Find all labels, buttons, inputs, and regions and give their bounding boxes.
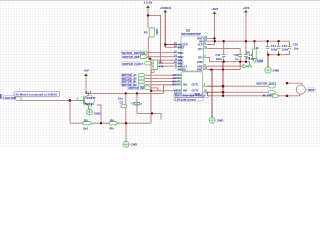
wire IC pin jog to rail C xyxy=(208,58,210,62)
junction IC in xyxy=(164,43,167,46)
svg-text:47k: 47k xyxy=(159,65,164,69)
wire junction to IC pin y45.3 xyxy=(165,44,177,46)
svg-text:R2: R2 xyxy=(144,30,148,34)
wire mid rail y113.6 xyxy=(137,113,161,119)
svg-text:C5: C5 xyxy=(120,101,124,105)
ground GND bracket below R9 xyxy=(252,59,263,63)
wire IC pin y47.9 xyxy=(165,46,177,48)
wire L1 to IC xyxy=(148,52,178,54)
svg-text:Motor drive dual H-bridge: Motor drive dual H-bridge xyxy=(175,95,206,98)
wire resistor R2 bottom down xyxy=(147,37,149,59)
svg-text:10u: 10u xyxy=(294,47,299,51)
op-amp U2 sub body labels xyxy=(172,74,181,96)
svg-text:GND: GND xyxy=(131,143,139,147)
wire R3 bottom row xyxy=(152,65,177,67)
global label MOTOR_A2 xyxy=(121,76,145,80)
wire subbox out2 xyxy=(223,91,269,93)
svg-text:AIN1: AIN1 xyxy=(178,52,184,55)
U2 left pin stubs xyxy=(177,45,181,70)
svg-text:1.5A peak current: 1.5A peak current xyxy=(175,98,196,101)
svg-text:R9: R9 xyxy=(246,51,250,55)
capacitor C12 xyxy=(233,53,242,62)
wire R3 top row xyxy=(152,59,177,61)
junction c13 rail xyxy=(253,40,255,42)
capacitor C11 xyxy=(215,53,225,61)
wire flag3 stem xyxy=(214,14,216,38)
svg-text:IN2: IN2 xyxy=(183,89,188,93)
U2 pin names right xyxy=(197,37,203,71)
junction rail93 c6 xyxy=(136,92,138,94)
svg-text:R5: R5 xyxy=(84,118,88,122)
svg-text:+5V: +5V xyxy=(83,68,88,72)
svg-text:VINT: VINT xyxy=(197,69,203,72)
op-amp U2 DRV8833 main body xyxy=(181,29,204,71)
note box N2 xyxy=(174,94,209,101)
junction x224 y69 xyxy=(222,68,224,70)
svg-text:100n: 100n xyxy=(271,48,278,52)
power flag +3V3 F3 xyxy=(211,7,218,14)
svg-text:1u: 1u xyxy=(235,57,239,61)
wire gnd drop x126 xyxy=(125,123,127,141)
svg-text:5V Motor connected to 5VBUS: 5V Motor connected to 5VBUS xyxy=(16,93,58,97)
junction bottom r5 xyxy=(100,122,102,124)
power flag +3V3 F4 xyxy=(242,6,249,13)
svg-text:100n: 100n xyxy=(216,57,223,61)
resistor R5 xyxy=(81,118,95,130)
svg-text:+3V3: +3V3 xyxy=(211,7,218,11)
junction c11 railC xyxy=(223,61,225,63)
svg-text:SOT23: SOT23 xyxy=(85,102,95,106)
svg-text:OUT2: OUT2 xyxy=(192,89,199,93)
svg-text:R6: R6 xyxy=(110,118,114,122)
label MOTOR_OUT1 pill xyxy=(256,81,276,88)
wire rail C y61.7 xyxy=(210,62,250,65)
junction c15 rail xyxy=(277,40,279,42)
label MOTOR_OUT2 pill xyxy=(268,90,275,94)
wire cap C11 column top xyxy=(223,41,225,54)
wire row 81.6 xyxy=(145,81,176,83)
svg-text:CP1: CP1 xyxy=(198,48,203,51)
svg-text:1k: 1k xyxy=(256,46,260,50)
wire gnd drop x268 xyxy=(267,55,269,67)
svg-text:4.5-5V: 4.5-5V xyxy=(144,1,153,5)
wire IC pin y44.5 xyxy=(208,44,215,46)
wire subbox out1 xyxy=(223,85,269,87)
wire R2 column down to bottom xyxy=(150,59,152,123)
transistor Q1 xyxy=(79,93,95,109)
dark wires xyxy=(165,12,268,117)
wire IC pin y49.5 to cap C12 xyxy=(208,49,241,55)
wire L2 to IC xyxy=(148,56,178,58)
capacitor C14 xyxy=(266,44,278,52)
wire rail A y41.2 xyxy=(208,40,290,42)
wire flag1 stem xyxy=(147,8,149,28)
chevron pin y66.2 xyxy=(243,65,248,68)
svg-text:CP2: CP2 xyxy=(198,57,203,60)
wire row 75.2 xyxy=(145,74,176,76)
resistor R2 xyxy=(144,28,159,37)
wire cap C15 leads xyxy=(278,41,280,55)
wire lighter net xyxy=(21,99,79,101)
junction c15 railB xyxy=(277,54,279,56)
svg-text:GND: GND xyxy=(273,68,281,72)
power flag VBUS F2 xyxy=(160,6,172,13)
wire cap C13 leads xyxy=(254,41,256,44)
wire cap C16 column xyxy=(289,41,291,55)
wire subbox drop x212 xyxy=(211,70,213,117)
wire row 90.8 left part xyxy=(151,90,158,92)
svg-text:VCP: VCP xyxy=(197,44,202,47)
global label MOTOR_B2 xyxy=(121,83,145,87)
wire motor gnd to motor xyxy=(278,95,288,97)
resistor R3 xyxy=(151,60,164,73)
junction c14 railB xyxy=(267,54,269,56)
svg-text:GND: GND xyxy=(197,61,203,64)
svg-text:100k: 100k xyxy=(155,29,159,36)
U2 pin numbers left xyxy=(174,42,177,70)
svg-text:BC817: BC817 xyxy=(87,96,96,100)
svg-text:100n: 100n xyxy=(282,48,289,52)
wire row 78.4 xyxy=(145,77,176,79)
wire cap C5 column xyxy=(125,93,127,123)
resistor R6 xyxy=(106,118,121,130)
ground G2 (bottom) xyxy=(123,141,138,147)
ground G4 (right) xyxy=(265,67,280,73)
motor M1 xyxy=(286,82,316,97)
wire flag3 stem lower xyxy=(214,38,216,44)
svg-text:47k: 47k xyxy=(246,56,251,60)
capacitor C16 xyxy=(288,43,299,51)
wire L3 to IC xyxy=(152,62,177,64)
wire label L5 jog xyxy=(151,88,176,91)
svg-text:1u: 1u xyxy=(139,102,143,106)
svg-text:C6: C6 xyxy=(132,102,136,106)
junction row90.8 xyxy=(150,90,152,92)
wire flag5 stem xyxy=(85,76,87,94)
global label MOTOR_FAULT L3 xyxy=(122,61,153,66)
svg-text:Q1 2: Q1 2 xyxy=(85,90,92,94)
junction R2 col xyxy=(149,58,151,60)
chevron railC end xyxy=(247,65,252,67)
wire row 84.8 xyxy=(145,84,176,86)
wire cap C14 leads xyxy=(267,41,269,55)
wire C12 column lower xyxy=(239,62,241,70)
wire cap C6 column xyxy=(136,93,138,113)
wire y93.6 up to subbox pin xyxy=(164,85,176,94)
global label MOTOR_DRIVE_EN L1 xyxy=(121,51,148,55)
svg-text:MOTOR_DIR1: MOTOR_DIR1 xyxy=(123,55,142,59)
wire emitter drop xyxy=(97,105,101,123)
U2 pin numbers right xyxy=(204,36,207,70)
wire bottom rail y123.9 xyxy=(70,100,151,123)
wire long rail y93.6 xyxy=(86,92,164,94)
junction bottom r6 xyxy=(125,122,127,124)
wire flag2 stem dark xyxy=(164,12,166,47)
label MOTOR_GND pill xyxy=(263,93,279,97)
capacitor C5 (small pill) xyxy=(118,97,127,108)
svg-text:MOTOR_IN2: MOTOR_IN2 xyxy=(129,86,146,90)
ground G3 (subbox) xyxy=(209,117,224,123)
svg-text:DRV8833PWP: DRV8833PWP xyxy=(181,32,201,36)
svg-text:+5VBUS: +5VBUS xyxy=(160,6,172,10)
capacitor C13 xyxy=(239,40,254,63)
svg-text:+3V3: +3V3 xyxy=(242,6,249,10)
junction x208 xyxy=(210,69,212,71)
junction flag3 rail xyxy=(214,40,216,42)
wire subbox out2 dark xyxy=(207,91,224,93)
wire IC pin y66.2 chevron xyxy=(208,65,244,67)
junction c11 rail xyxy=(223,40,225,42)
note box N1 xyxy=(14,92,60,97)
svg-text:GND: GND xyxy=(94,112,100,116)
junction c14 rail xyxy=(266,40,268,42)
global label MOTOR_DIR L2 xyxy=(122,55,148,59)
global label MOTOR_A1 xyxy=(121,73,145,77)
svg-text:AISEN: AISEN xyxy=(178,68,186,71)
svg-text:VREF: VREF xyxy=(178,46,185,49)
svg-text:MOTOR_FAULT: MOTOR_FAULT xyxy=(123,62,144,66)
resistor R9 xyxy=(246,41,259,60)
wire motor gnd rail xyxy=(208,95,271,97)
U2 sub pins xyxy=(176,75,208,96)
wire IC top right pin to flag3 xyxy=(208,37,215,39)
junction out1 xyxy=(222,85,225,88)
U2 right pin stubs xyxy=(204,38,208,69)
wire subbox out1 dark xyxy=(207,85,224,87)
wire cap C11 bottom xyxy=(223,57,225,62)
capacitor C15 xyxy=(277,44,289,52)
wire flag4 stem xyxy=(245,13,247,42)
junction flag3 pin xyxy=(213,37,215,39)
transistor Q1 labels xyxy=(77,90,96,107)
junction flag1 xyxy=(147,14,149,16)
svg-text:MOT: MOT xyxy=(308,88,315,92)
ground G1 (emitter) xyxy=(87,109,101,116)
op-amp U2 sub body xyxy=(182,72,203,96)
junction gnd rail xyxy=(222,95,224,97)
junction out2 xyxy=(222,91,225,94)
junction lighter xyxy=(69,99,72,102)
svg-text:2k2: 2k2 xyxy=(83,126,88,130)
svg-text:IN1: IN1 xyxy=(183,83,188,87)
svg-text:OUT1: OUT1 xyxy=(192,83,199,87)
svg-text:47k: 47k xyxy=(109,126,114,130)
wire motor-gnd drop xyxy=(207,92,209,96)
global label MOTOR_B1 xyxy=(121,80,145,84)
power flag +5V F5 xyxy=(83,68,88,76)
junction rail93 c5 xyxy=(125,92,127,94)
node LIGHTER xyxy=(0,94,22,101)
wire IC pin y69.5 xyxy=(208,69,241,71)
capacitor C6 xyxy=(132,102,143,106)
junction mid rail xyxy=(151,112,153,114)
global label MOTOR_IN2 L5 xyxy=(128,86,151,90)
wire flag1 junction to corner xyxy=(148,15,161,63)
wire rail B y54.7 xyxy=(268,54,289,56)
U2 pin names left xyxy=(178,44,188,72)
svg-text:GND: GND xyxy=(217,119,225,123)
power flag +5V F1 xyxy=(144,1,153,8)
svg-text:GND: GND xyxy=(257,59,263,63)
wire column x224 xyxy=(222,62,224,96)
